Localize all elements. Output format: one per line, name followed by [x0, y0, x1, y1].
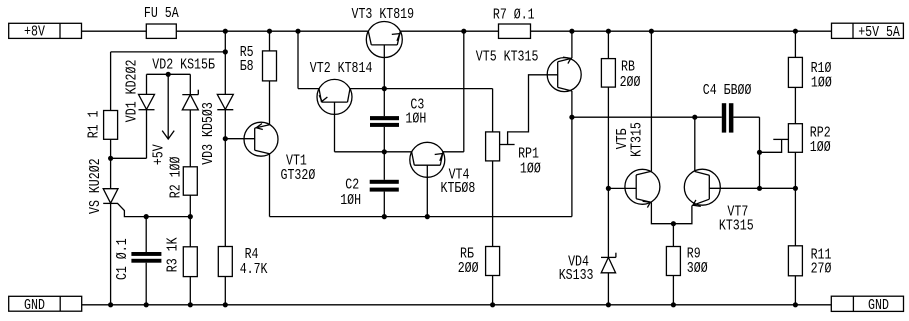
svg-text:+5V: +5V: [150, 144, 167, 165]
resistor R10 100: [794, 31, 796, 57]
wire RP2 to R11: [794, 152, 796, 246]
wire VT2 collector to RP1: [350, 88, 493, 90]
resistor R8 200: [607, 31, 609, 58]
ground rail: [82, 304, 832, 306]
transistor VT7 KT315: [684, 169, 720, 205]
wire C4 to RP2 wiper column: [759, 117, 761, 188]
capacitor C2 10H: [370, 180, 399, 184]
svg-text:R1 1: R1 1: [85, 111, 102, 139]
svg-text:RB: RB: [621, 58, 635, 75]
capacitor C4 6800: [722, 103, 726, 132]
svg-text:KT315: KT315: [629, 122, 646, 157]
transistor VT6 KT315: [608, 187, 636, 189]
resistor R1 1: [104, 111, 118, 140]
wire VT6 emitter to common node: [651, 202, 673, 223]
resistor R4 4.7K: [218, 247, 232, 277]
svg-text:VT2 KT814: VT2 KT814: [310, 60, 373, 77]
svg-text:R7 Ø.1: R7 Ø.1: [493, 7, 535, 24]
resistor R5 68: [269, 31, 271, 51]
wire VT5 collector to C4: [572, 116, 722, 118]
thyristor VS KU202: [110, 158, 112, 188]
svg-text:GT32Ø: GT32Ø: [281, 167, 316, 184]
transistor VT2 KT814: [297, 31, 299, 88]
svg-text:R3 1K: R3 1K: [164, 237, 181, 272]
resistor R7 0.1: [499, 24, 531, 38]
node: junction dots on +8V rail: [223, 29, 228, 34]
capacitor C1 0.1: [145, 217, 147, 252]
resistor R9 300: [672, 224, 674, 247]
svg-text:27Ø: 27Ø: [811, 261, 832, 278]
transistor VT5 KT315: [547, 58, 581, 92]
svg-text:VD1 KD2Ø2: VD1 KD2Ø2: [123, 60, 140, 123]
resistor R2 100: [183, 167, 197, 195]
transistor VT1 GT320: [244, 122, 278, 156]
wire VT4 emitter up to +8V rail: [443, 151, 464, 153]
svg-text:C1 Ø.1: C1 Ø.1: [114, 238, 131, 280]
fuse FU1 5A: [146, 24, 176, 38]
transistor VT3 KT819: [366, 22, 402, 58]
wire VT6 collector up to rail: [650, 31, 652, 171]
resistor R3 1K: [189, 217, 191, 247]
wire +8V to fuse: [82, 30, 147, 32]
svg-text:4.7K: 4.7K: [240, 261, 268, 278]
svg-text:C4 БBØØ: C4 БBØØ: [703, 82, 752, 99]
svg-text:1ØH: 1ØH: [405, 111, 426, 128]
wire VT7 collector up to C4 line: [694, 117, 696, 171]
wire fuse to VT3 collector: [176, 30, 368, 32]
diode VD3 KD503: [224, 52, 226, 95]
svg-text:1ØH: 1ØH: [340, 192, 361, 209]
wire VT3 base down: [383, 45, 385, 116]
svg-text:+8V: +8V: [24, 24, 45, 41]
svg-text:FU 5A: FU 5A: [144, 5, 179, 22]
capacitor C3 10H: [370, 116, 399, 120]
wire R7 to +5V output: [531, 30, 832, 32]
wire RP1 to R6: [492, 161, 494, 247]
svg-text:R2 1ØØ: R2 1ØØ: [168, 157, 185, 199]
svg-text:VD3 KD5Ø3: VD3 KD5Ø3: [200, 102, 217, 165]
resistor R11 270: [788, 246, 802, 276]
svg-text:VS KU2Ø2: VS KU2Ø2: [87, 158, 104, 214]
svg-text:VT5 KT315: VT5 KT315: [476, 49, 539, 66]
wire VT7 base to divider: [709, 187, 795, 189]
wire VT5 emitter up to rail: [571, 31, 573, 58]
RP2 wiper tap: [773, 138, 788, 140]
svg-text:GND: GND: [868, 297, 889, 314]
wire VT1 collector down and across to VT5: [269, 154, 271, 217]
wire R1 to node A: [110, 139, 112, 158]
diode VD1 KD202: [139, 94, 155, 109]
RP1 wiper to VT5 base: [500, 144, 515, 146]
resistor R6 200: [486, 247, 500, 276]
terminal box GND right: [831, 296, 903, 311]
svg-text:GND: GND: [24, 297, 45, 314]
svg-text:2ØØ: 2ØØ: [458, 260, 479, 277]
potentiometer RP1 100: [486, 132, 500, 161]
wire VT4 base down: [426, 165, 428, 216]
wire rail down to VD block corner: [224, 31, 226, 52]
wire node A to VD1 anode: [111, 157, 147, 159]
wire VT5 collector down: [571, 91, 573, 217]
transistor VT4 KT608: [410, 142, 445, 177]
svg-text:KTБØ8: KTБØ8: [441, 180, 476, 197]
svg-text:3ØØ: 3ØØ: [687, 260, 708, 277]
svg-text:KS133: KS133: [559, 267, 594, 284]
wire VD3 to R4: [224, 139, 226, 247]
wire VD1-VD2 top bar: [147, 73, 191, 75]
zener VD2 KS156 symbol: [189, 74, 191, 94]
svg-text:1ØØ: 1ØØ: [810, 139, 831, 156]
wire down to R1: [110, 52, 112, 111]
potentiometer RP2 100: [788, 124, 802, 153]
svg-text:VT3 KT819: VT3 KT819: [352, 6, 415, 23]
svg-text:2ØØ: 2ØØ: [620, 74, 641, 91]
svg-text:+5V 5A: +5V 5A: [858, 24, 900, 41]
wire VD block top horizontal: [111, 51, 226, 53]
terminal box GND left: [9, 296, 82, 311]
svg-text:KT315: KT315: [719, 217, 754, 234]
wire VT2 base down to VT4: [334, 102, 336, 152]
svg-text:VD2 KS15Б: VD2 KS15Б: [152, 56, 215, 73]
terminal box +5V 5A: [832, 23, 904, 38]
svg-text:1ØØ: 1ØØ: [811, 74, 832, 91]
wire VT3 emitter to R7: [400, 30, 498, 32]
wire VT7 emitter to common node: [673, 206, 692, 224]
terminal box +8V: [9, 23, 82, 38]
thyristor gate wire: [118, 203, 191, 216]
svg-text:1ØØ: 1ØØ: [520, 161, 541, 178]
svg-text:Б8: Б8: [240, 58, 254, 75]
zener VD4 KS133: [607, 188, 609, 257]
arrow +5V indicator: [167, 74, 169, 139]
